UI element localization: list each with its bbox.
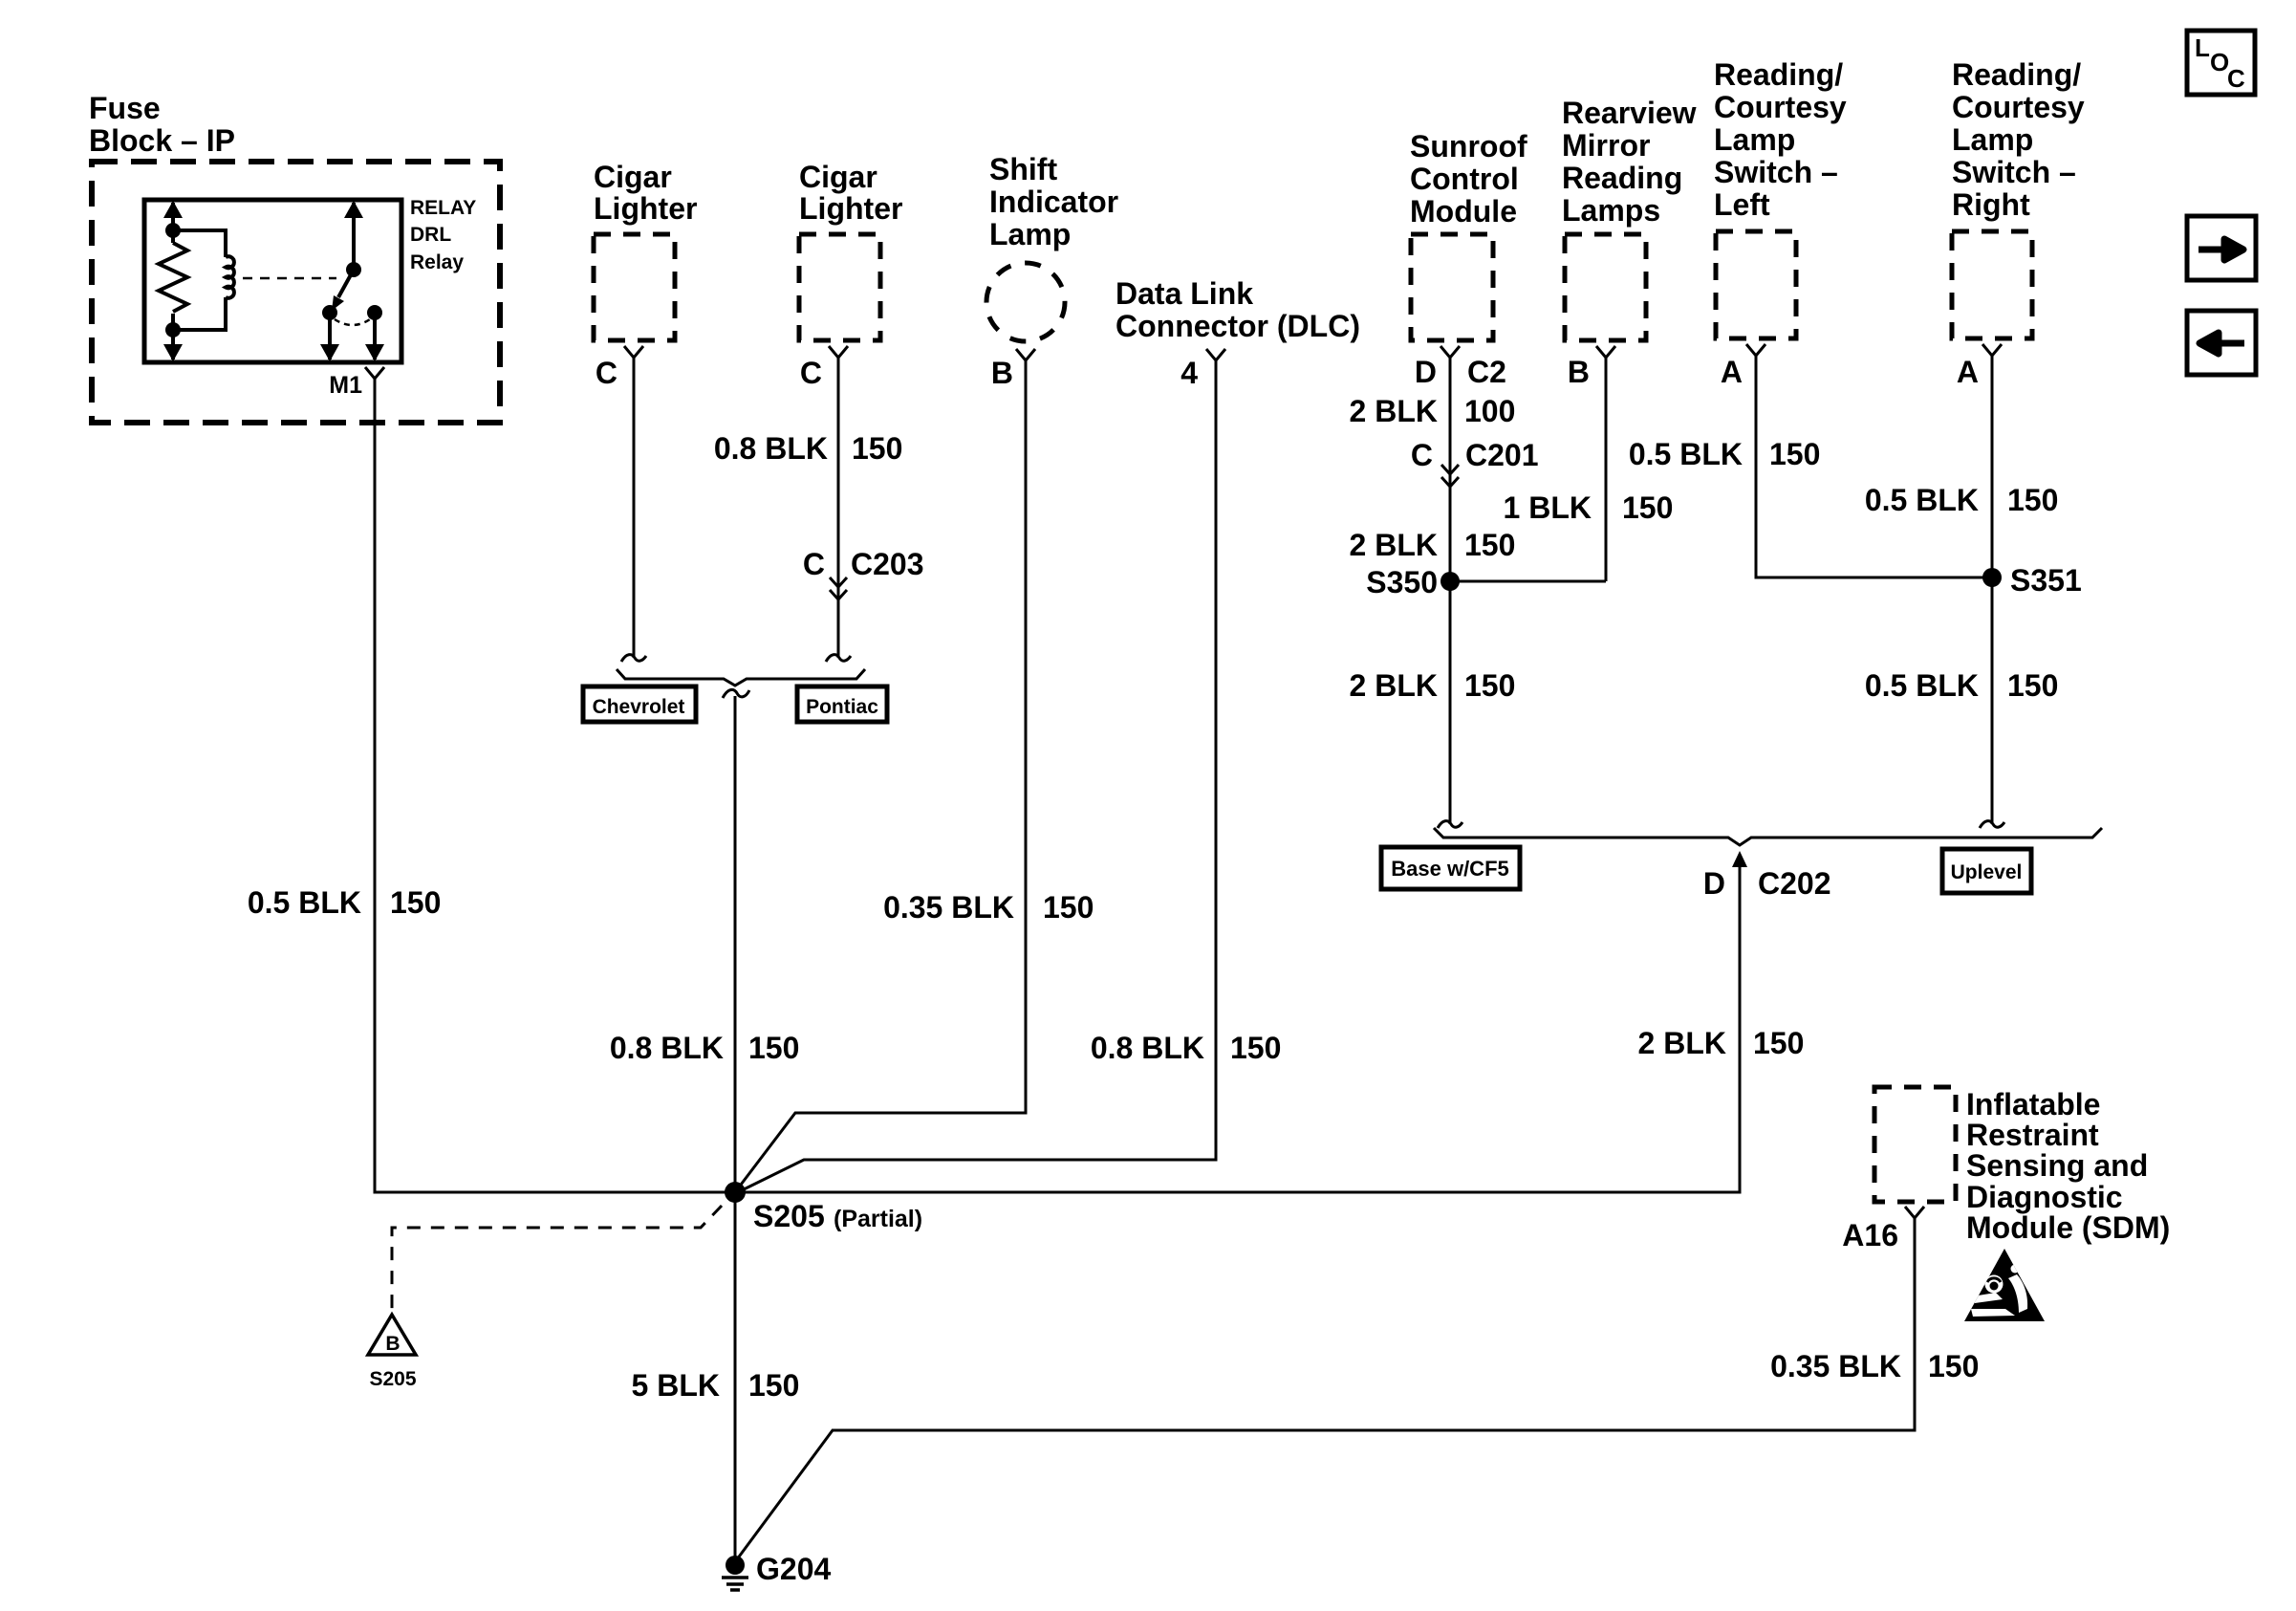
svg-text:0.8 BLK: 0.8 BLK xyxy=(1091,1031,1204,1065)
svg-text:0.8 BLK: 0.8 BLK xyxy=(610,1031,724,1065)
svg-text:C: C xyxy=(596,356,617,390)
Reading/Courtesy Lamp Switch Right dashed box xyxy=(1952,231,2032,338)
wire: SDM A16 to G204 (0.35 BLK 150) xyxy=(737,1225,1915,1559)
dashed actuation link coil to switch xyxy=(243,277,336,280)
svg-text:C2: C2 xyxy=(1467,355,1506,389)
svg-text:A: A xyxy=(1721,355,1743,389)
node: coil top junction dot xyxy=(165,223,181,238)
relay switch common pin wire xyxy=(352,203,356,270)
svg-text:Lamp: Lamp xyxy=(989,217,1071,251)
svg-text:C: C xyxy=(1411,438,1433,472)
svg-text:Data Link: Data Link xyxy=(1116,276,1253,311)
svg-text:Cigar: Cigar xyxy=(799,160,877,194)
svg-text:2 BLK: 2 BLK xyxy=(1638,1026,1726,1060)
svg-text:A: A xyxy=(1957,355,1979,389)
svg-text:RELAY: RELAY xyxy=(410,197,476,219)
Cigar Lighter 2 dashed box xyxy=(799,234,880,340)
relay coil pin 1 wire (left vertical) xyxy=(171,203,175,359)
wire: contact left to pin xyxy=(328,313,332,359)
svg-text:1 BLK: 1 BLK xyxy=(1504,490,1592,525)
Sunroof Control Module dashed box xyxy=(1411,234,1493,340)
variant box Pontiac xyxy=(797,686,887,722)
airbag warning triangle icon xyxy=(1964,1249,2045,1321)
svg-text:150: 150 xyxy=(390,885,441,920)
svg-text:0.5 BLK: 0.5 BLK xyxy=(1629,437,1743,471)
svg-text:150: 150 xyxy=(1622,490,1673,525)
svg-text:Reading/: Reading/ xyxy=(1714,57,1843,92)
wire: merged cigar ground to S205 (0.8 BLK 150) xyxy=(734,696,737,1192)
svg-text:0.5 BLK: 0.5 BLK xyxy=(1865,668,1979,703)
splice S350 xyxy=(1440,572,1460,591)
variant box Uplevel xyxy=(1942,849,2031,893)
svg-text:Module (SDM): Module (SDM) xyxy=(1966,1210,2170,1245)
svg-text:Switch –: Switch – xyxy=(1952,155,2076,189)
svg-text:Module: Module xyxy=(1410,194,1517,229)
dashed stub wire to S205 reference triangle xyxy=(392,1206,722,1311)
connector Y pin 4 (DLC) xyxy=(1206,349,1225,371)
inductor L1 (relay coil) xyxy=(226,256,234,298)
wire: S350 down to C202 brace (2 BLK 150) xyxy=(1449,581,1452,824)
svg-text:Mirror: Mirror xyxy=(1562,128,1650,163)
svg-text:Chevrolet: Chevrolet xyxy=(593,696,685,718)
ground G204 dot xyxy=(726,1556,745,1575)
svg-text:2 BLK: 2 BLK xyxy=(1350,668,1438,703)
wire: rearview lamps to S350 (1 BLK 150) xyxy=(1605,364,1608,581)
svg-text:Uplevel: Uplevel xyxy=(1951,861,2023,883)
wire: sunroof module down (2 BLK 100) xyxy=(1449,364,1452,581)
node: switch pivot dot xyxy=(346,262,361,277)
svg-text:Right: Right xyxy=(1952,187,2030,222)
wire: contact right to pin M1 xyxy=(373,313,377,359)
node: switch contact right dot xyxy=(367,305,382,320)
fuse block dashed boundary xyxy=(92,162,500,423)
navigation box arrow right xyxy=(2187,216,2256,280)
svg-text:Courtesy: Courtesy xyxy=(1952,90,2085,124)
splice S351 xyxy=(1982,568,2002,587)
relay pin arrow down (contact right M1) xyxy=(365,344,384,361)
variant box Chevrolet xyxy=(583,686,696,722)
relay pin arrow up (switch common) xyxy=(344,201,363,218)
svg-text:Lamp: Lamp xyxy=(1714,122,1795,157)
svg-text:S205: S205 xyxy=(753,1199,825,1233)
lamp dashed circle xyxy=(986,263,1065,341)
LOC reference box xyxy=(2187,31,2255,95)
svg-text:Shift: Shift xyxy=(989,152,1057,186)
svg-text:Base w/CF5: Base w/CF5 xyxy=(1391,857,1509,881)
wire end hook (cigar 2) xyxy=(826,655,851,662)
svg-text:Control: Control xyxy=(1410,162,1519,196)
svg-text:D: D xyxy=(1415,355,1437,389)
svg-text:4: 4 xyxy=(1180,356,1198,390)
wire: cigar lighter 1 down xyxy=(633,364,636,658)
svg-text:0.5 BLK: 0.5 BLK xyxy=(1865,483,1979,517)
connector Y at M1 xyxy=(365,367,384,384)
wire: M1 to S205 (0.5 BLK 150) xyxy=(375,384,735,1192)
connector C201 double chevron xyxy=(1441,465,1459,487)
component: Inflatable Restraint SDM dashed box xyxy=(1874,1087,1956,1202)
Rearview Mirror Reading Lamps dashed box xyxy=(1565,234,1646,340)
svg-text:Reading/: Reading/ xyxy=(1952,57,2081,92)
svg-text:B: B xyxy=(991,356,1013,390)
node: coil bottom junction dot xyxy=(165,322,181,337)
wire end hook (sunroof branch) xyxy=(1438,821,1462,828)
svg-text:Left: Left xyxy=(1714,187,1770,222)
svg-text:Pontiac: Pontiac xyxy=(806,696,878,718)
wire: right switch down through S351 (0.5 BLK 150) xyxy=(1991,364,1994,824)
svg-text:D: D xyxy=(1703,866,1725,901)
wire: coil branch top xyxy=(173,230,226,257)
svg-text:Sensing and: Sensing and xyxy=(1966,1148,2148,1183)
reference triangle B S205 xyxy=(368,1315,416,1355)
wire: C202 down to S205 (2 BLK 150) xyxy=(735,866,1740,1192)
svg-text:(Partial): (Partial) xyxy=(834,1206,922,1232)
wire: cigar lighter 2 down (0.8 BLK 150) xyxy=(837,364,840,658)
svg-text:C: C xyxy=(803,547,825,581)
svg-text:2 BLK: 2 BLK xyxy=(1350,528,1438,562)
svg-text:150: 150 xyxy=(1043,890,1094,925)
resistor R1 (relay suppression resistor) xyxy=(159,243,187,312)
svg-text:Lighter: Lighter xyxy=(594,191,697,226)
svg-text:S205: S205 xyxy=(369,1368,416,1390)
wire: S205 to G204 (5 BLK 150) xyxy=(734,1192,737,1560)
navigation box arrow left xyxy=(2187,311,2256,375)
svg-text:5 BLK: 5 BLK xyxy=(632,1368,720,1403)
connector Y pin D (sunroof) xyxy=(1440,346,1460,365)
svg-text:150: 150 xyxy=(1464,668,1515,703)
svg-text:C: C xyxy=(2227,64,2245,93)
svg-text:A16: A16 xyxy=(1842,1218,1898,1252)
svg-text:Lighter: Lighter xyxy=(799,191,902,226)
svg-text:Restraint: Restraint xyxy=(1966,1118,2099,1152)
svg-text:B: B xyxy=(385,1333,400,1355)
Reading/Courtesy Lamp Switch Left dashed box xyxy=(1716,231,1796,338)
merge brace under cigar lighters xyxy=(617,669,865,686)
svg-text:S351: S351 xyxy=(2010,563,2082,598)
svg-text:Diagnostic: Diagnostic xyxy=(1966,1180,2123,1214)
svg-text:150: 150 xyxy=(852,431,902,466)
connector Y pin A (left switch) xyxy=(1746,344,1765,365)
connector C203 double chevron xyxy=(830,577,847,599)
connector Y pin A (right switch) xyxy=(1982,344,2002,365)
svg-text:C203: C203 xyxy=(851,547,924,581)
merge brace Base/Uplevel into C202 xyxy=(1434,828,2102,845)
connector Y pin A16 (SDM) xyxy=(1905,1207,1924,1226)
node: switch contact left dot xyxy=(322,305,337,320)
relay pin arrow down (contact left) xyxy=(320,344,339,361)
svg-text:100: 100 xyxy=(1464,394,1515,428)
svg-text:B: B xyxy=(1568,355,1590,389)
svg-text:150: 150 xyxy=(2007,483,2058,517)
svg-text:0.5 BLK: 0.5 BLK xyxy=(248,885,361,920)
dashed arc between contacts xyxy=(335,319,370,325)
merge tail hook xyxy=(723,689,749,698)
wire end hook (right switch branch) xyxy=(1980,821,2004,828)
svg-text:150: 150 xyxy=(1230,1031,1281,1065)
connector Y pin C (cigar lighter 1) xyxy=(624,346,643,365)
svg-text:0.8 BLK: 0.8 BLK xyxy=(714,431,828,466)
svg-text:Lamp: Lamp xyxy=(1952,122,2033,157)
connector Y pin B (rearview lamps) xyxy=(1596,346,1615,365)
svg-text:S350: S350 xyxy=(1366,565,1438,599)
wire: shift indicator lamp to S205 (0.35 BLK 150) xyxy=(735,370,1026,1192)
relay switch blade Q xyxy=(338,270,354,297)
relay pin arrow up (coil supply) xyxy=(163,201,183,218)
switch blade arrowhead xyxy=(332,295,344,311)
variant box Base w/CF5 xyxy=(1381,847,1520,889)
svg-text:Courtesy: Courtesy xyxy=(1714,90,1847,124)
wire: coil branch bottom xyxy=(173,297,226,330)
svg-text:Sunroof: Sunroof xyxy=(1410,129,1527,163)
svg-text:DRL: DRL xyxy=(410,224,451,246)
svg-text:150: 150 xyxy=(748,1368,799,1403)
svg-text:Fuse: Fuse xyxy=(89,91,161,125)
connector Y pin B (shift indicator lamp) xyxy=(1016,349,1035,371)
svg-text:150: 150 xyxy=(1753,1026,1804,1060)
splice S205 dot xyxy=(725,1182,746,1203)
svg-text:C202: C202 xyxy=(1758,866,1831,901)
svg-text:C201: C201 xyxy=(1465,438,1539,472)
wire: S350 to rearview lamps xyxy=(1450,580,1606,583)
svg-text:150: 150 xyxy=(748,1031,799,1065)
svg-text:0.35 BLK: 0.35 BLK xyxy=(883,890,1014,925)
wire: DLC to S205 (0.8 BLK 150) xyxy=(736,370,1216,1193)
svg-text:C: C xyxy=(800,356,822,390)
ground G204 symbol xyxy=(722,1578,748,1590)
connector C202 arrow up xyxy=(1732,851,1747,867)
relay pin arrow down (coil ground) xyxy=(163,344,183,361)
svg-text:150: 150 xyxy=(1769,437,1820,471)
wire end hook (cigar 1) xyxy=(621,655,646,662)
connector Y pin C (cigar lighter 2) xyxy=(829,346,848,365)
svg-text:L: L xyxy=(2195,33,2210,62)
svg-text:2 BLK: 2 BLK xyxy=(1350,394,1438,428)
svg-text:Switch –: Switch – xyxy=(1714,155,1838,189)
svg-text:Inflatable: Inflatable xyxy=(1966,1087,2100,1121)
svg-text:150: 150 xyxy=(1464,528,1515,562)
svg-text:Connector (DLC): Connector (DLC) xyxy=(1116,309,1360,343)
svg-text:150: 150 xyxy=(2007,668,2058,703)
svg-text:150: 150 xyxy=(1928,1349,1979,1383)
svg-text:Cigar: Cigar xyxy=(594,160,672,194)
wire: left switch to S351 (0.5 BLK 150) xyxy=(1756,364,1992,577)
svg-text:Relay: Relay xyxy=(410,251,464,273)
svg-text:Rearview: Rearview xyxy=(1562,96,1697,130)
svg-text:Reading: Reading xyxy=(1562,161,1682,195)
svg-text:Block – IP: Block – IP xyxy=(89,123,235,158)
svg-text:Indicator: Indicator xyxy=(989,185,1118,219)
Cigar Lighter 1 dashed box xyxy=(594,234,675,340)
svg-text:0.35 BLK: 0.35 BLK xyxy=(1770,1349,1901,1383)
svg-text:Lamps: Lamps xyxy=(1562,193,1660,228)
svg-text:G204: G204 xyxy=(756,1552,831,1586)
svg-text:M1: M1 xyxy=(329,372,362,399)
relay U1 box outline xyxy=(144,200,401,362)
